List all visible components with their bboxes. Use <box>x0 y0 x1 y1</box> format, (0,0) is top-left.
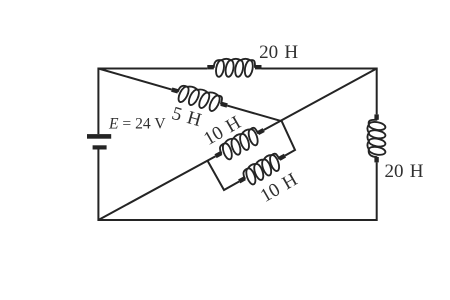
svg-text:20 H: 20 H <box>384 161 423 182</box>
svg-text:20 H: 20 H <box>259 42 298 63</box>
svg-text:E = 24 V: E = 24 V <box>108 115 166 132</box>
